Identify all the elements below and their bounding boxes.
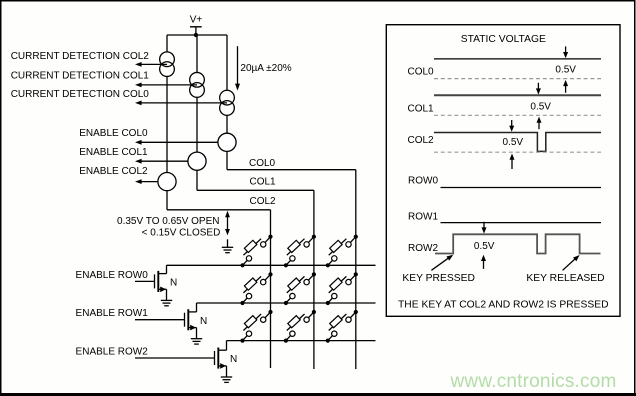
svg-text:ROW2: ROW2 [408,243,438,254]
svg-text:CURRENT DETECTION COL2: CURRENT DETECTION COL2 [11,51,150,62]
svg-text:ENABLE ROW1: ENABLE ROW1 [76,308,149,319]
svg-text:ROW0: ROW0 [408,175,438,186]
svg-text:< 0.15V CLOSED: < 0.15V CLOSED [142,227,221,238]
svg-text:0.5V: 0.5V [555,65,576,76]
svg-text:ENABLE COL0: ENABLE COL0 [79,128,148,139]
svg-text:ENABLE COL1: ENABLE COL1 [79,147,148,158]
svg-text:www.cntronics.com: www.cntronics.com [450,371,617,392]
svg-text:KEY PRESSED: KEY PRESSED [402,273,475,284]
svg-text:ENABLE ROW2: ENABLE ROW2 [76,346,149,357]
svg-text:CURRENT DETECTION COL0: CURRENT DETECTION COL0 [11,89,150,100]
svg-text:ROW1: ROW1 [408,212,438,223]
svg-text:0.5V: 0.5V [474,241,495,252]
svg-text:CURRENT DETECTION COL1: CURRENT DETECTION COL1 [11,71,150,82]
svg-text:COL2: COL2 [250,196,277,207]
svg-text:KEY RELEASED: KEY RELEASED [526,273,604,284]
svg-text:0.35V TO 0.65V OPEN: 0.35V TO 0.65V OPEN [117,216,219,227]
svg-text:COL1: COL1 [408,104,435,115]
svg-text:THE KEY AT COL2 AND ROW2 IS PR: THE KEY AT COL2 AND ROW2 IS PRESSED [398,299,609,310]
svg-text:COL1: COL1 [250,176,277,187]
svg-text:N: N [230,354,237,365]
svg-text:STATIC VOLTAGE: STATIC VOLTAGE [461,34,546,45]
svg-text:COL0: COL0 [408,66,435,77]
svg-text:N: N [200,316,207,327]
svg-text:ENABLE COL2: ENABLE COL2 [79,166,148,177]
svg-text:COL2: COL2 [408,135,435,146]
svg-text:ENABLE ROW0: ENABLE ROW0 [76,270,149,281]
svg-text:COL0: COL0 [249,158,276,169]
svg-text:N: N [170,278,177,289]
svg-text:20µA ±20%: 20µA ±20% [240,63,291,74]
svg-text:V+: V+ [190,15,203,26]
svg-text:0.5V: 0.5V [530,101,551,112]
svg-text:0.5V: 0.5V [503,137,524,148]
